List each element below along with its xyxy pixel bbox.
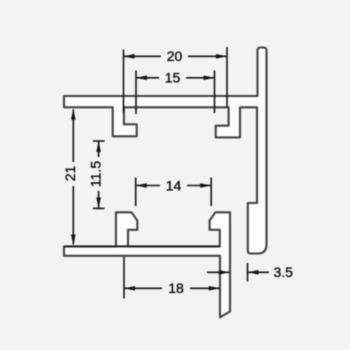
- dimension 15: [136, 71, 215, 115]
- dimension 18: [124, 257, 220, 299]
- svg-text:21: 21: [62, 166, 78, 182]
- svg-text:20: 20: [167, 48, 183, 64]
- dimension 11.5 (vertical): [93, 141, 105, 208]
- dimension 21 (vertical): [72, 110, 74, 245]
- svg-text:11.5: 11.5: [88, 161, 104, 187]
- profile piece: top flange with hooks and tall right wall: [64, 48, 267, 254]
- dimension 14: [136, 178, 212, 207]
- svg-text:15: 15: [165, 70, 181, 86]
- svg-text:14: 14: [166, 177, 182, 193]
- bottom flange top edge emphasis: [64, 245, 220, 247]
- svg-text:18: 18: [168, 280, 184, 296]
- svg-text:3.5: 3.5: [274, 264, 294, 280]
- profile piece: bottom flange with tabs and leg: [64, 212, 230, 317]
- dimension 3.5: [207, 263, 269, 282]
- dimension 20: [124, 47, 228, 113]
